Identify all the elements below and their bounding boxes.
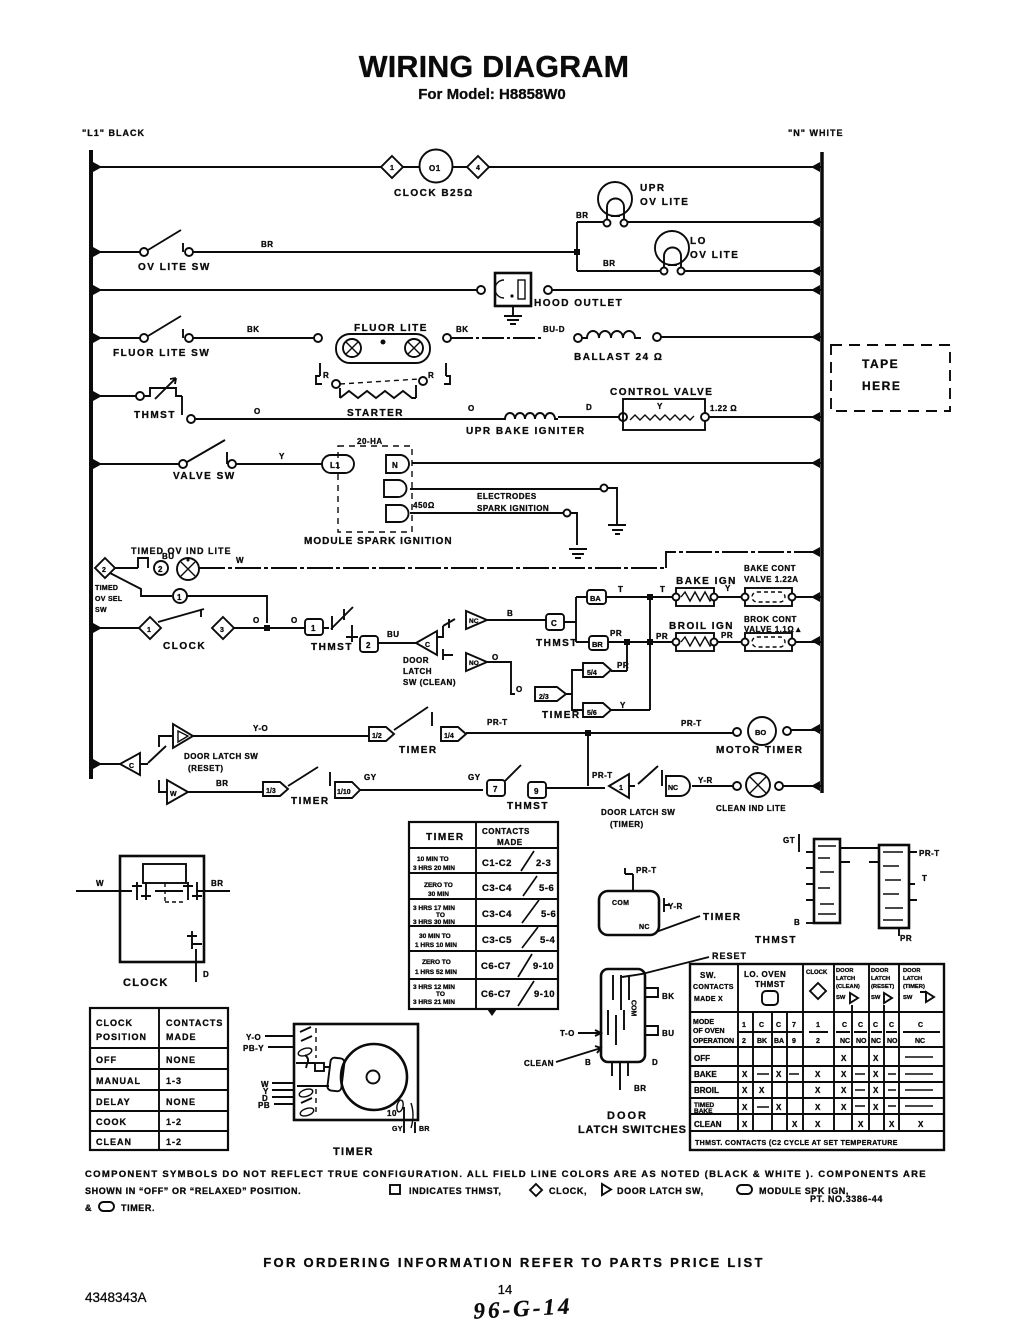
svg-text:THMST: THMST bbox=[755, 935, 797, 946]
svg-text:2: 2 bbox=[366, 641, 371, 650]
svg-text:2: 2 bbox=[102, 567, 106, 574]
svg-text:NC: NC bbox=[871, 1038, 881, 1045]
svg-text:(TIMER): (TIMER) bbox=[610, 820, 644, 829]
svg-text:WIRING DIAGRAM: WIRING DIAGRAM bbox=[359, 50, 630, 84]
svg-text:BK: BK bbox=[757, 1038, 767, 1045]
svg-text:X: X bbox=[889, 1120, 895, 1129]
svg-text:NO: NO bbox=[887, 1038, 898, 1045]
svg-text:CLOCK: CLOCK bbox=[806, 970, 828, 976]
svg-text:PB-Y: PB-Y bbox=[243, 1044, 264, 1053]
svg-text:LATCH: LATCH bbox=[403, 667, 432, 676]
svg-text:PR-T: PR-T bbox=[681, 719, 702, 728]
svg-text:BR: BR bbox=[592, 640, 603, 649]
svg-text:LATCH: LATCH bbox=[903, 976, 922, 982]
svg-text:C1-C2: C1-C2 bbox=[482, 858, 512, 869]
svg-text:R: R bbox=[428, 371, 434, 380]
svg-text:X: X bbox=[815, 1120, 821, 1129]
svg-text:X: X bbox=[742, 1086, 748, 1095]
svg-text:ZERO TO: ZERO TO bbox=[422, 959, 451, 966]
svg-text:T: T bbox=[660, 585, 665, 594]
svg-text:TIMED OV IND LITE: TIMED OV IND LITE bbox=[131, 546, 232, 556]
svg-text:TIMED: TIMED bbox=[95, 585, 118, 592]
svg-text:1: 1 bbox=[816, 1022, 820, 1029]
svg-text:CLOCK B25Ω: CLOCK B25Ω bbox=[394, 188, 474, 199]
svg-text:O: O bbox=[254, 407, 261, 416]
svg-text:3 HRS 20 MIN: 3 HRS 20 MIN bbox=[413, 865, 455, 872]
svg-text:4348343A: 4348343A bbox=[85, 1290, 147, 1305]
svg-text:450Ω: 450Ω bbox=[413, 501, 435, 510]
svg-text:3 HRS 12 MIN: 3 HRS 12 MIN bbox=[413, 984, 455, 991]
svg-text:FLUOR LITE SW: FLUOR LITE SW bbox=[113, 348, 210, 359]
svg-text:BO: BO bbox=[755, 728, 766, 737]
svg-text:2: 2 bbox=[158, 565, 163, 574]
svg-text:X: X bbox=[873, 1054, 879, 1063]
svg-text:2: 2 bbox=[816, 1038, 820, 1045]
svg-text:BR: BR bbox=[261, 240, 274, 249]
svg-text:B: B bbox=[794, 918, 800, 927]
svg-text:ZERO TO: ZERO TO bbox=[424, 882, 453, 889]
svg-text:SW: SW bbox=[903, 995, 913, 1001]
svg-text:CLEAN IND LITE: CLEAN IND LITE bbox=[716, 804, 786, 813]
svg-text:COM: COM bbox=[630, 1000, 637, 1017]
svg-text:2: 2 bbox=[742, 1038, 746, 1045]
svg-text:TIMER: TIMER bbox=[703, 912, 742, 923]
svg-text:DOOR: DOOR bbox=[403, 656, 429, 665]
svg-text:BK: BK bbox=[247, 325, 260, 334]
svg-text:X: X bbox=[776, 1103, 782, 1112]
svg-text:W: W bbox=[96, 879, 104, 888]
svg-text:20-HA: 20-HA bbox=[357, 437, 383, 446]
svg-text:THMST: THMST bbox=[507, 801, 549, 812]
svg-text:CONTACTS: CONTACTS bbox=[166, 1018, 223, 1028]
svg-text:OPERATION: OPERATION bbox=[693, 1038, 734, 1045]
svg-text:1: 1 bbox=[619, 785, 623, 792]
svg-text:X: X bbox=[742, 1103, 748, 1112]
svg-text:T-O: T-O bbox=[560, 1029, 575, 1038]
svg-text:B: B bbox=[585, 1058, 591, 1067]
svg-text:TO: TO bbox=[436, 912, 445, 919]
svg-text:HERE: HERE bbox=[862, 379, 901, 393]
svg-text:COM: COM bbox=[612, 900, 629, 907]
svg-text:POSITION: POSITION bbox=[96, 1032, 147, 1042]
svg-text:C3-C4: C3-C4 bbox=[482, 909, 512, 920]
svg-text:MODULE SPARK IGNITION: MODULE SPARK IGNITION bbox=[304, 536, 453, 547]
svg-text:PR: PR bbox=[610, 629, 622, 638]
svg-text:THMST. CONTACTS (C2 CYCLE AT: THMST. CONTACTS (C2 CYCLE AT SET TEMPERA… bbox=[695, 1140, 898, 1147]
svg-text:1 HRS 52 MIN: 1 HRS 52 MIN bbox=[415, 969, 457, 976]
svg-text:BAKE CONT: BAKE CONT bbox=[744, 564, 796, 573]
svg-text:BROK CONT: BROK CONT bbox=[744, 615, 797, 624]
svg-text:7: 7 bbox=[493, 785, 498, 794]
svg-text:14: 14 bbox=[498, 1282, 512, 1297]
svg-text:MODE: MODE bbox=[693, 1019, 714, 1026]
svg-text:C: C bbox=[425, 642, 430, 649]
svg-text:PR-T: PR-T bbox=[636, 866, 657, 875]
svg-text:9: 9 bbox=[792, 1038, 796, 1045]
svg-text:1/4: 1/4 bbox=[444, 733, 454, 740]
svg-text:5-6: 5-6 bbox=[539, 883, 554, 894]
svg-text:"N" WHITE: "N" WHITE bbox=[788, 128, 844, 138]
svg-text:2-3: 2-3 bbox=[536, 858, 551, 869]
svg-text:UPR BAKE IGNITER: UPR BAKE IGNITER bbox=[466, 426, 586, 437]
svg-text:OV LITE: OV LITE bbox=[640, 197, 689, 208]
svg-text:CLOCK: CLOCK bbox=[163, 641, 206, 652]
svg-text:CLEAN: CLEAN bbox=[96, 1137, 132, 1147]
svg-text:R: R bbox=[323, 371, 329, 380]
svg-text:1/10: 1/10 bbox=[337, 789, 351, 796]
svg-text:OF OVEN: OF OVEN bbox=[693, 1028, 725, 1035]
svg-text:X: X bbox=[873, 1086, 879, 1095]
svg-text:CONTACTS: CONTACTS bbox=[693, 984, 734, 991]
svg-text:X: X bbox=[858, 1120, 864, 1129]
svg-text:C6-C7: C6-C7 bbox=[481, 989, 511, 1000]
svg-text:SW (CLEAN): SW (CLEAN) bbox=[403, 678, 456, 687]
svg-text:CLOCK: CLOCK bbox=[96, 1018, 133, 1028]
svg-text:BAKE: BAKE bbox=[694, 1108, 713, 1115]
svg-text:THMST: THMST bbox=[134, 410, 176, 421]
svg-text:BA: BA bbox=[774, 1038, 784, 1045]
svg-text:BROIL: BROIL bbox=[694, 1086, 719, 1095]
svg-text:C: C bbox=[776, 1022, 781, 1029]
svg-text:(RESET): (RESET) bbox=[188, 764, 224, 773]
svg-text:NO: NO bbox=[856, 1038, 867, 1045]
svg-text:X: X bbox=[841, 1070, 847, 1079]
svg-text:O: O bbox=[492, 653, 499, 662]
svg-text:CLEAN: CLEAN bbox=[694, 1120, 722, 1129]
svg-text:"L1" BLACK: "L1" BLACK bbox=[82, 128, 145, 138]
svg-text:BK: BK bbox=[662, 992, 675, 1001]
svg-text:1-3: 1-3 bbox=[166, 1076, 182, 1086]
svg-text:NC: NC bbox=[639, 924, 650, 931]
svg-text:INDICATES THMST,: INDICATES THMST, bbox=[409, 1186, 501, 1196]
svg-text:NC: NC bbox=[915, 1038, 925, 1045]
svg-text:DOOR LATCH SW,: DOOR LATCH SW, bbox=[617, 1186, 704, 1196]
svg-text:RESET: RESET bbox=[712, 951, 747, 961]
svg-text:LO: LO bbox=[690, 236, 707, 247]
svg-text:TIMER.: TIMER. bbox=[121, 1203, 155, 1213]
svg-text:4: 4 bbox=[476, 165, 480, 172]
svg-text:DOOR: DOOR bbox=[871, 968, 889, 974]
svg-text:(CLEAN): (CLEAN) bbox=[836, 984, 860, 990]
svg-text:1-2: 1-2 bbox=[166, 1117, 182, 1127]
svg-text:X: X bbox=[815, 1070, 821, 1079]
svg-text:X: X bbox=[815, 1103, 821, 1112]
svg-text:D: D bbox=[203, 970, 209, 979]
svg-text:1-2: 1-2 bbox=[166, 1137, 182, 1147]
svg-text:MADE: MADE bbox=[166, 1032, 197, 1042]
svg-text:O: O bbox=[253, 616, 260, 625]
svg-text:7: 7 bbox=[792, 1022, 796, 1029]
svg-text:NONE: NONE bbox=[166, 1055, 196, 1065]
svg-text:SW: SW bbox=[95, 607, 107, 614]
svg-text:SW: SW bbox=[871, 995, 881, 1001]
svg-text:X: X bbox=[873, 1070, 879, 1079]
svg-text:SHOWN IN “OFF” OR “RELAXED: SHOWN IN “OFF” OR “RELAXED” POSITION. bbox=[85, 1186, 301, 1196]
svg-text:9-10: 9-10 bbox=[534, 989, 555, 1000]
svg-text:Y: Y bbox=[279, 452, 285, 461]
svg-text:DOOR: DOOR bbox=[836, 968, 854, 974]
svg-text:LATCH: LATCH bbox=[871, 976, 890, 982]
svg-text:CLEAN: CLEAN bbox=[524, 1059, 554, 1068]
svg-text:X: X bbox=[841, 1103, 847, 1112]
svg-text:BR: BR bbox=[419, 1126, 430, 1133]
svg-text:SW.: SW. bbox=[700, 971, 716, 980]
svg-text:1: 1 bbox=[147, 627, 151, 634]
svg-text:BU: BU bbox=[662, 1029, 675, 1038]
svg-text:&: & bbox=[85, 1203, 92, 1213]
svg-text:LO. OVEN: LO. OVEN bbox=[744, 970, 786, 979]
svg-text:PR: PR bbox=[900, 934, 912, 943]
svg-text:W: W bbox=[236, 556, 244, 565]
svg-text:N: N bbox=[392, 461, 398, 470]
svg-text:NC: NC bbox=[469, 618, 479, 625]
svg-text:Y-R: Y-R bbox=[668, 902, 683, 911]
svg-text:DOOR LATCH SW: DOOR LATCH SW bbox=[601, 808, 675, 817]
svg-text:B: B bbox=[507, 609, 513, 618]
svg-text:GY: GY bbox=[392, 1126, 403, 1133]
svg-text:THMST: THMST bbox=[536, 638, 578, 649]
svg-text:VALVE 1.1Ω▲: VALVE 1.1Ω▲ bbox=[744, 625, 803, 634]
svg-text:CONTROL VALVE: CONTROL VALVE bbox=[610, 387, 713, 398]
svg-text:STARTER: STARTER bbox=[347, 408, 404, 419]
svg-text:5/6: 5/6 bbox=[587, 710, 597, 717]
svg-text:10: 10 bbox=[387, 1109, 397, 1118]
svg-text:T: T bbox=[922, 874, 927, 883]
svg-text:LATCH: LATCH bbox=[836, 976, 855, 982]
svg-text:BR: BR bbox=[576, 211, 589, 220]
svg-text:C3-C5: C3-C5 bbox=[482, 935, 512, 946]
svg-text:UPR: UPR bbox=[640, 183, 666, 194]
svg-text:PT. NO.3386-44: PT. NO.3386-44 bbox=[810, 1194, 883, 1204]
svg-text:X: X bbox=[815, 1086, 821, 1095]
svg-text:MOTOR TIMER: MOTOR TIMER bbox=[716, 745, 803, 756]
svg-text:Y: Y bbox=[620, 701, 626, 710]
svg-text:X: X bbox=[742, 1070, 748, 1079]
svg-text:TIMER: TIMER bbox=[291, 796, 330, 807]
svg-text:1/2: 1/2 bbox=[372, 733, 382, 740]
svg-text:3 HRS 30 MIN: 3 HRS 30 MIN bbox=[413, 919, 455, 926]
svg-text:COOK: COOK bbox=[96, 1117, 127, 1127]
svg-text:W: W bbox=[170, 791, 177, 798]
svg-text:MANUAL: MANUAL bbox=[96, 1076, 141, 1086]
svg-text:C: C bbox=[129, 763, 134, 770]
svg-text:3 HRS 17 MIN: 3 HRS 17 MIN bbox=[413, 905, 455, 912]
svg-text:5-6: 5-6 bbox=[541, 909, 556, 920]
svg-text:O: O bbox=[291, 616, 298, 625]
svg-text:TIMER: TIMER bbox=[333, 1146, 374, 1158]
svg-text:BR: BR bbox=[211, 879, 224, 888]
svg-text:BU: BU bbox=[387, 630, 400, 639]
svg-text:96-G-14: 96-G-14 bbox=[473, 1293, 573, 1321]
svg-text:X: X bbox=[792, 1120, 798, 1129]
svg-text:CONTACTS: CONTACTS bbox=[482, 827, 530, 836]
svg-text:C: C bbox=[759, 1022, 764, 1029]
svg-text:Y-R: Y-R bbox=[698, 776, 713, 785]
svg-text:1.22 Ω: 1.22 Ω bbox=[710, 404, 737, 413]
svg-text:BR: BR bbox=[634, 1084, 647, 1093]
svg-text:C: C bbox=[918, 1022, 923, 1029]
svg-text:NO: NO bbox=[469, 660, 479, 667]
svg-text:Y: Y bbox=[657, 402, 663, 411]
svg-text:9-10: 9-10 bbox=[533, 961, 554, 972]
svg-text:PR: PR bbox=[721, 631, 733, 640]
svg-text:NC: NC bbox=[840, 1038, 850, 1045]
svg-text:Y-O: Y-O bbox=[246, 1033, 261, 1042]
svg-text:BU-D: BU-D bbox=[543, 325, 565, 334]
svg-text:5/4: 5/4 bbox=[587, 670, 597, 677]
svg-text:9: 9 bbox=[534, 787, 539, 796]
svg-text:OV SEL: OV SEL bbox=[95, 596, 123, 603]
svg-text:FLUOR LITE: FLUOR LITE bbox=[354, 323, 428, 334]
svg-text:GY: GY bbox=[468, 773, 481, 782]
svg-text:TIMER: TIMER bbox=[542, 710, 581, 721]
svg-text:OV LITE SW: OV LITE SW bbox=[138, 262, 211, 273]
svg-text:THMST: THMST bbox=[311, 642, 353, 653]
svg-text:Y: Y bbox=[725, 584, 731, 593]
svg-text:X: X bbox=[873, 1103, 879, 1112]
svg-text:DOOR: DOOR bbox=[903, 968, 921, 974]
svg-text:PR-T: PR-T bbox=[487, 718, 508, 727]
svg-text:C: C bbox=[873, 1022, 878, 1029]
svg-text:OV LITE: OV LITE bbox=[690, 250, 739, 261]
svg-text:GY: GY bbox=[364, 773, 377, 782]
svg-text:X: X bbox=[759, 1086, 765, 1095]
svg-text:30 MIN: 30 MIN bbox=[428, 891, 449, 898]
svg-text:(TIMER): (TIMER) bbox=[903, 984, 925, 990]
svg-text:THMST: THMST bbox=[755, 980, 785, 989]
svg-text:Y-O: Y-O bbox=[253, 724, 268, 733]
svg-text:CLOCK: CLOCK bbox=[123, 977, 169, 989]
svg-text:LATCH SWITCHES: LATCH SWITCHES bbox=[578, 1124, 687, 1136]
svg-text:X: X bbox=[841, 1054, 847, 1063]
svg-text:X: X bbox=[742, 1120, 748, 1129]
svg-text:SW: SW bbox=[836, 995, 846, 1001]
svg-text:X: X bbox=[776, 1070, 782, 1079]
svg-text:MADE: MADE bbox=[497, 838, 523, 847]
svg-text:O: O bbox=[516, 685, 523, 694]
svg-text:OFF: OFF bbox=[96, 1055, 117, 1065]
svg-text:ELECTRODES: ELECTRODES bbox=[477, 492, 537, 501]
svg-text:TAPE: TAPE bbox=[862, 357, 899, 371]
svg-text:2/3: 2/3 bbox=[539, 694, 549, 701]
svg-text:For Model: H8858W0: For Model: H8858W0 bbox=[418, 86, 566, 103]
svg-text:BAKE: BAKE bbox=[694, 1070, 717, 1079]
svg-text:5-4: 5-4 bbox=[540, 935, 555, 946]
svg-text:D: D bbox=[586, 403, 592, 412]
svg-text:NONE: NONE bbox=[166, 1097, 196, 1107]
svg-text:L1: L1 bbox=[330, 461, 340, 470]
svg-text:C: C bbox=[889, 1022, 894, 1029]
svg-text:BA: BA bbox=[590, 594, 601, 603]
svg-text:3: 3 bbox=[220, 627, 224, 634]
svg-text:D: D bbox=[652, 1058, 658, 1067]
svg-text:VALVE 1.22A: VALVE 1.22A bbox=[744, 575, 799, 584]
svg-text:1: 1 bbox=[311, 624, 316, 633]
svg-text:C: C bbox=[858, 1022, 863, 1029]
svg-text:NC: NC bbox=[668, 785, 678, 792]
svg-text:30 MIN TO: 30 MIN TO bbox=[419, 933, 451, 940]
svg-text:BR: BR bbox=[603, 259, 616, 268]
svg-text:TIMER: TIMER bbox=[426, 832, 465, 843]
svg-text:FOR ORDERING INFORMATION REFER: FOR ORDERING INFORMATION REFER TO PARTS … bbox=[263, 1255, 764, 1270]
svg-text:DELAY: DELAY bbox=[96, 1097, 131, 1107]
svg-text:GT: GT bbox=[783, 836, 795, 845]
svg-text:BK: BK bbox=[456, 325, 469, 334]
svg-text:DOOR: DOOR bbox=[607, 1110, 648, 1122]
svg-text:1: 1 bbox=[390, 165, 394, 172]
svg-text:O: O bbox=[468, 404, 475, 413]
svg-text:C3-C4: C3-C4 bbox=[482, 883, 512, 894]
svg-text:TO: TO bbox=[436, 991, 445, 998]
svg-text:C: C bbox=[551, 619, 557, 628]
svg-text:OFF: OFF bbox=[694, 1054, 710, 1063]
svg-text:3 HRS 21 MIN: 3 HRS 21 MIN bbox=[413, 999, 455, 1006]
svg-text:1 HRS 10 MIN: 1 HRS 10 MIN bbox=[415, 942, 457, 949]
svg-text:VALVE SW: VALVE SW bbox=[173, 471, 236, 482]
svg-text:COMPONENT SYMBOLS DO NOT REFL: COMPONENT SYMBOLS DO NOT REFLECT TRUE CO… bbox=[85, 1169, 927, 1180]
svg-text:PR: PR bbox=[656, 632, 668, 641]
svg-text:T: T bbox=[618, 585, 623, 594]
svg-text:1: 1 bbox=[742, 1022, 746, 1029]
svg-text:X: X bbox=[841, 1086, 847, 1095]
svg-text:PB: PB bbox=[258, 1101, 270, 1110]
svg-text:SPARK IGNITION: SPARK IGNITION bbox=[477, 504, 549, 513]
svg-text:TIMER: TIMER bbox=[399, 745, 438, 756]
svg-text:CLOCK,: CLOCK, bbox=[549, 1186, 587, 1196]
svg-text:BALLAST 24 Ω: BALLAST 24 Ω bbox=[574, 352, 663, 363]
svg-text:MADE X: MADE X bbox=[694, 996, 723, 1003]
svg-text:O1: O1 bbox=[429, 164, 441, 173]
svg-text:1: 1 bbox=[177, 593, 182, 602]
svg-text:C6-C7: C6-C7 bbox=[481, 961, 511, 972]
svg-text:X: X bbox=[918, 1120, 924, 1129]
svg-text:1/3: 1/3 bbox=[266, 788, 276, 795]
svg-text:10 MIN TO: 10 MIN TO bbox=[417, 856, 449, 863]
svg-text:BR: BR bbox=[216, 779, 229, 788]
svg-text:BU: BU bbox=[162, 552, 175, 561]
svg-text:PR-T: PR-T bbox=[592, 771, 613, 780]
svg-text:(RESET): (RESET) bbox=[871, 984, 894, 990]
svg-text:HOOD OUTLET: HOOD OUTLET bbox=[534, 298, 623, 309]
svg-text:C: C bbox=[842, 1022, 847, 1029]
svg-text:PR-T: PR-T bbox=[919, 849, 940, 858]
svg-text:DOOR LATCH SW: DOOR LATCH SW bbox=[184, 752, 258, 761]
